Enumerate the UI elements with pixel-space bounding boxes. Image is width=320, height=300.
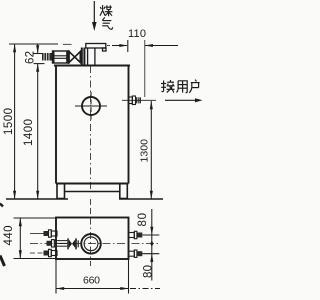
dim 1400 line [36,64,39,199]
manhole circle [82,97,100,115]
plan tank circle outer [81,234,101,254]
top reference extension line [9,43,58,45]
label 户 glyph [189,80,199,93]
ground line right segment [119,198,163,200]
manhole crosshair vertical [90,92,92,120]
plan left stub C (bottom) [30,249,57,256]
inlet threaded nipple [42,53,52,61]
plan right nozzle E (lower) [129,250,143,257]
nozzle D centerline extension [142,234,159,236]
vessel bottom head line [65,191,120,193]
plan horizontal centerline [30,243,159,245]
plan valve bowtie (solid) [69,239,76,248]
dim 110 extension line down to nozzle [144,40,146,97]
plan view rectangle [56,218,129,260]
svg-text:1400: 1400 [23,119,35,146]
dim 62 arrow (upper) [36,44,39,54]
outlet nozzle flange [132,96,135,105]
dim 660 extension lines [55,259,57,294]
dim 440 line [19,218,22,259]
plan left stub A (top) [30,230,57,237]
dim 62 extension lines [34,53,45,55]
svg-text:80: 80 [137,213,149,227]
outlet nozzle bolt block [136,97,142,103]
dim 80/80 vertical line [150,209,153,281]
svg-text:1500: 1500 [3,108,15,135]
label 用 glyph [176,81,187,93]
outlet nozzle neck (elevation) [129,97,133,104]
svg-text:1300: 1300 [139,139,151,163]
svg-text:110: 110 [128,28,146,40]
label 接 glyph [161,80,175,93]
outlet nozzle centerline [122,99,156,101]
svg-text:80: 80 [143,265,155,278]
plan right nozzle D (upper) [129,231,143,238]
vessel left leg [57,184,65,199]
svg-text:440: 440 [3,226,15,246]
plan tank circle inner [84,237,98,251]
inlet flange pair [81,48,86,66]
dim 110 line right arrow [145,44,178,47]
inlet valve bowtie [69,52,80,63]
dim 1300 line [150,101,153,199]
plan left stub B (middle, to valve) [47,240,68,247]
dim 660 line [56,287,160,290]
plan valve flange bar left [67,238,69,249]
nozzle E centerline extension [142,253,159,255]
manhole crosshair horizontal [75,105,107,107]
plan vertical centerline [90,218,92,267]
inlet top plate [86,44,106,52]
vessel right leg [120,184,128,199]
gas inlet arrow (meiqi) [92,1,97,31]
dim 110 line left arrow [112,44,128,47]
dim 1500 line [13,44,16,199]
label 气 (gas) glyph [102,17,113,29]
svg-text:62: 62 [25,51,37,64]
dim 110 extension tick (vessel wall) [127,40,129,52]
inlet drop pipe [88,48,95,66]
dim 440 extension lines [14,217,57,219]
vessel body outline [54,66,130,184]
inlet spool piece [53,51,70,63]
plan valve flange bar right [75,238,77,249]
plan valve outlet tick [77,240,79,247]
edge mark diagonal dash [0,256,5,267]
edge mark small spot [0,204,3,207]
projection centerline between views [90,199,92,218]
vessel centerline (dashed) [90,66,92,192]
ground line left segment [6,198,68,200]
label 煤 (coal) glyph [100,5,112,16]
outlet flow arrow [165,98,203,102]
svg-text:660: 660 [83,275,100,287]
